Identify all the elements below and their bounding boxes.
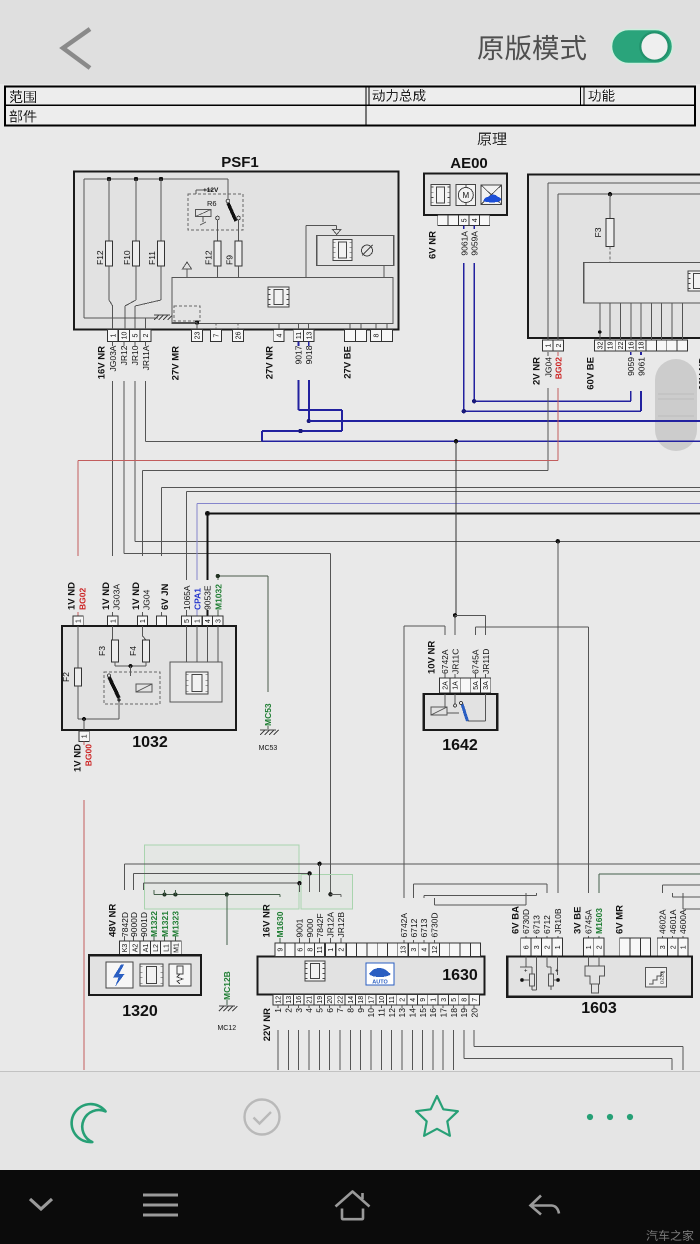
label M1323 xyxy=(171,911,181,937)
wire BSI module pin stubs xyxy=(600,303,682,340)
wire JR11A xyxy=(141,342,262,442)
svg-text:7: 7 xyxy=(335,1008,345,1013)
svg-text:1V ND: 1V ND xyxy=(73,744,84,772)
svg-text:9061A: 9061A xyxy=(459,231,469,256)
wire 9018 (blue) xyxy=(304,342,700,424)
fuse F12 (relay branch) xyxy=(214,220,221,330)
svg-text:6: 6 xyxy=(524,945,531,949)
block PSF1 outline xyxy=(74,172,399,330)
junction PSF1 pin23 xyxy=(172,320,199,329)
svg-text:JG03A: JG03A xyxy=(108,345,118,371)
svg-text:32: 32 xyxy=(597,342,604,350)
svg-text:9061: 9061 xyxy=(637,357,647,376)
svg-text:1: 1 xyxy=(194,619,201,623)
svg-text:1603: 1603 xyxy=(581,1000,617,1017)
wire 6V JN net xyxy=(162,488,700,617)
label 1V ND (BG02) xyxy=(67,582,78,610)
svg-text:1: 1 xyxy=(555,945,562,949)
svg-text:M1630: M1630 xyxy=(275,911,285,937)
wire 1630 pin20 xyxy=(474,1005,683,1070)
wire 1032 F4 feed xyxy=(143,626,147,640)
svg-text:CPA1: CPA1 xyxy=(192,588,202,610)
svg-text:16V NR: 16V NR xyxy=(262,904,273,937)
svg-text:5A: 5A xyxy=(473,681,480,690)
svg-text:1V ND: 1V ND xyxy=(67,582,78,610)
svg-text:5: 5 xyxy=(184,619,191,623)
wire 9000 net xyxy=(134,871,312,943)
svg-text:M1603: M1603 xyxy=(594,908,604,934)
battery symbols 1603 xyxy=(520,957,560,991)
label M1603 xyxy=(594,908,604,934)
label JG03A (1032) xyxy=(112,584,122,610)
1642 connector pins xyxy=(440,678,491,693)
label BG02 xyxy=(554,357,564,379)
svg-text:4600A: 4600A xyxy=(678,909,688,934)
svg-text:A1: A1 xyxy=(143,944,150,953)
label 9059 xyxy=(626,357,636,376)
svg-text:3: 3 xyxy=(441,998,448,1002)
block 1320 outline xyxy=(89,955,201,995)
buzzer icon xyxy=(362,245,373,256)
svg-text:L2: L2 xyxy=(153,944,160,952)
svg-text:6745A: 6745A xyxy=(584,909,594,934)
ground PSF1 internal xyxy=(154,315,173,320)
wire BG02 net (red) xyxy=(78,352,558,616)
svg-text:+: + xyxy=(555,969,559,975)
svg-text:7: 7 xyxy=(214,333,221,337)
label 6712 (1603) xyxy=(542,915,552,934)
label MC53 small xyxy=(259,745,278,752)
svg-text:2: 2 xyxy=(670,945,677,949)
svg-text:6730D: 6730D xyxy=(521,909,531,934)
svg-text:6730D: 6730D xyxy=(430,912,440,937)
wire M1630 drop (green) xyxy=(279,895,281,943)
svg-text:2: 2 xyxy=(556,343,563,347)
label 9000D xyxy=(129,912,139,937)
svg-text:5: 5 xyxy=(315,1008,325,1013)
svg-text:R6: R6 xyxy=(207,199,217,208)
wire 7842 net xyxy=(125,862,700,943)
IC U2 (sub-module) xyxy=(333,240,352,261)
svg-text:1: 1 xyxy=(545,343,552,347)
svg-text:1630: 1630 xyxy=(442,967,478,984)
label M1032 (1032) xyxy=(213,584,223,610)
highlight box 1 xyxy=(145,845,300,909)
BSI bottom connector pins xyxy=(543,340,688,351)
label 6713 (1603) xyxy=(532,915,542,934)
label CPA1 (1032) xyxy=(192,588,202,610)
junction BSI pin32 xyxy=(598,330,602,334)
label 1V ND (BG00) xyxy=(73,744,84,772)
label MC12B xyxy=(222,971,232,1000)
wire 1032 IC feeds xyxy=(187,626,218,662)
label 6V JN xyxy=(160,583,171,610)
node triangle PSF1 xyxy=(183,262,192,278)
label F9 xyxy=(225,255,235,265)
svg-text:6712: 6712 xyxy=(542,915,552,934)
svg-text:2: 2 xyxy=(143,333,150,337)
svg-text:9059: 9059 xyxy=(626,357,636,376)
wire 1032 BG02 internal xyxy=(77,626,79,668)
svg-text:1: 1 xyxy=(110,333,117,337)
svg-text:1320: 1320 xyxy=(122,1003,158,1020)
1630 top connector pins xyxy=(275,943,481,957)
svg-text:7: 7 xyxy=(472,998,479,1002)
wire 9001 net xyxy=(144,881,302,943)
block BSI outline xyxy=(528,174,700,338)
svg-text:5: 5 xyxy=(461,218,468,222)
wire JR10B drop xyxy=(557,541,559,938)
wire PSF1 internal +bus xyxy=(84,177,228,318)
svg-text:2: 2 xyxy=(284,1008,294,1013)
wire 1065A net xyxy=(187,492,700,617)
wire JR11A internal xyxy=(84,318,145,330)
svg-text:7842F: 7842F xyxy=(315,913,325,937)
svg-text:8: 8 xyxy=(346,1008,356,1013)
svg-text:14: 14 xyxy=(348,996,355,1004)
icon check circle xyxy=(245,1100,280,1135)
svg-text:13: 13 xyxy=(397,1008,407,1018)
relay coil 1642 xyxy=(431,694,447,715)
svg-text:8: 8 xyxy=(307,948,314,952)
label 27V NR xyxy=(265,346,276,379)
svg-text:BG00: BG00 xyxy=(84,744,94,766)
svg-text:4: 4 xyxy=(410,998,417,1002)
relay switch 1642 (blue) xyxy=(460,702,468,722)
label F12 (branch) xyxy=(204,250,214,265)
svg-text:F3: F3 xyxy=(593,227,603,237)
label 6742A (1642) xyxy=(440,649,450,674)
svg-text:1: 1 xyxy=(681,945,688,949)
svg-text:1032: 1032 xyxy=(132,734,168,751)
wire 9017 (blue) xyxy=(262,342,342,442)
svg-text:9000: 9000 xyxy=(305,918,315,937)
label 16V NR (1630) xyxy=(262,904,273,937)
wire MC12B drop (green) xyxy=(226,895,228,1006)
wire M1032 net xyxy=(216,574,268,616)
svg-text:1: 1 xyxy=(82,734,89,738)
block 1630 outline xyxy=(258,957,485,995)
svg-text:L1: L1 xyxy=(163,944,170,952)
icon favorite star xyxy=(416,1096,458,1136)
svg-text:27V BE: 27V BE xyxy=(343,346,354,379)
label 6V MR xyxy=(615,905,626,934)
nav bar icons xyxy=(30,1192,559,1220)
fuse F9 xyxy=(235,220,242,330)
label JG04 (1032) xyxy=(142,589,152,610)
icon night-mode moon xyxy=(64,1096,113,1146)
label JR11C xyxy=(450,649,460,674)
svg-text:19: 19 xyxy=(317,996,324,1004)
svg-text:2: 2 xyxy=(544,945,551,949)
wire 4602A xyxy=(662,885,700,938)
svg-text:MC53: MC53 xyxy=(263,703,273,726)
wire 6730D net xyxy=(434,893,526,943)
svg-text:F12: F12 xyxy=(204,250,214,265)
label 1603 xyxy=(581,1000,617,1017)
svg-text:6713: 6713 xyxy=(419,918,429,937)
svg-text:F12: F12 xyxy=(95,250,105,265)
label 7842F xyxy=(315,913,325,937)
svg-text:22: 22 xyxy=(338,996,345,1004)
svg-text:20: 20 xyxy=(327,996,334,1004)
label 27V BE xyxy=(343,346,354,379)
label 22V NR xyxy=(262,1008,273,1041)
relay R6 (+12V) xyxy=(188,179,243,230)
fuse F12 (left) xyxy=(106,179,113,330)
ground MC12 xyxy=(219,1006,238,1011)
label 6713 (1630) xyxy=(419,918,429,937)
relay switch 1032 xyxy=(107,674,120,702)
IC icon 1320 xyxy=(140,964,163,986)
svg-text:M1: M1 xyxy=(174,943,181,953)
wire 6712 net xyxy=(414,884,547,943)
svg-text:2: 2 xyxy=(597,945,604,949)
wire 1032 F3 feed xyxy=(112,626,114,640)
wire JR11D branch xyxy=(455,615,486,678)
fuse F10 xyxy=(125,179,140,330)
svg-text:16: 16 xyxy=(628,342,635,350)
label 6V NR xyxy=(428,231,439,259)
wire JG03A xyxy=(108,342,118,617)
wire MC53 drop xyxy=(267,576,269,729)
car icon AE00 xyxy=(481,185,502,204)
svg-text:F3: F3 xyxy=(97,646,107,656)
label M1321 xyxy=(160,911,170,937)
block 1642 outline xyxy=(424,694,497,730)
wire PSF1 left internal to ground xyxy=(84,317,158,319)
svg-text:F4: F4 xyxy=(128,646,138,656)
svg-text:6745A: 6745A xyxy=(471,649,481,674)
svg-text:2A: 2A xyxy=(442,681,449,690)
label 原理 xyxy=(478,133,507,146)
label 9000 (1630) xyxy=(305,918,315,937)
svg-text:13: 13 xyxy=(307,332,314,340)
label M1630 xyxy=(275,911,285,937)
svg-text:18: 18 xyxy=(639,342,646,350)
label AE00 xyxy=(450,155,488,172)
block 1603 outline xyxy=(507,957,692,997)
svg-text:11: 11 xyxy=(389,996,396,1003)
dashed box PSF1 module xyxy=(174,306,200,321)
wire 9059A (blue) xyxy=(472,226,631,404)
label 4601A xyxy=(668,909,678,934)
label 3V BE xyxy=(573,907,584,934)
svg-text:9053E: 9053E xyxy=(203,585,213,610)
label 1630 xyxy=(442,967,478,984)
svg-text:M1323: M1323 xyxy=(171,911,181,937)
svg-text:BG02: BG02 xyxy=(78,588,88,610)
svg-text:1: 1 xyxy=(140,619,147,623)
wire JR12B branch xyxy=(330,894,341,943)
label 4602A xyxy=(658,909,668,934)
svg-text:1065A: 1065A xyxy=(182,585,192,610)
svg-text:BG02: BG02 xyxy=(554,357,564,379)
svg-text:JR12B: JR12B xyxy=(336,912,346,938)
svg-text:3A: 3A xyxy=(483,681,490,690)
svg-text:9059A: 9059A xyxy=(470,231,480,256)
wire sub-module to module xyxy=(383,265,385,277)
label 2V NR xyxy=(532,357,543,385)
svg-text:10V NR: 10V NR xyxy=(427,641,438,674)
relay 1032 (dashed box) xyxy=(104,672,160,704)
svg-text:17: 17 xyxy=(438,1008,448,1018)
svg-text:4602A: 4602A xyxy=(658,909,668,934)
svg-text:1: 1 xyxy=(273,1008,283,1013)
svg-text:4: 4 xyxy=(304,1008,314,1013)
svg-text:4: 4 xyxy=(277,333,284,337)
svg-text:9: 9 xyxy=(420,998,427,1002)
svg-text:13: 13 xyxy=(401,946,408,954)
label 9001D xyxy=(139,912,149,937)
svg-text:M1322: M1322 xyxy=(149,911,159,937)
svg-text:M1321: M1321 xyxy=(160,911,170,937)
svg-text:3: 3 xyxy=(534,945,541,949)
fuse F11 xyxy=(135,179,164,330)
wire 1642 3A internal xyxy=(468,694,486,721)
wire 6742A drop xyxy=(403,626,405,943)
label 9061A xyxy=(459,231,469,256)
label F10 xyxy=(122,250,132,265)
svg-text:MC53: MC53 xyxy=(259,745,278,752)
ground MC53 xyxy=(260,730,279,735)
svg-text:1: 1 xyxy=(586,945,593,949)
label 60V BE xyxy=(586,357,597,390)
svg-text:9001D: 9001D xyxy=(139,912,149,937)
svg-text:23: 23 xyxy=(195,332,202,340)
svg-text:2: 2 xyxy=(339,948,346,952)
svg-text:12: 12 xyxy=(432,946,439,954)
svg-text:K3: K3 xyxy=(122,944,129,953)
svg-text:5: 5 xyxy=(133,333,140,337)
svg-text:12: 12 xyxy=(276,996,283,1004)
label JG04 xyxy=(543,357,553,378)
IC U3 (BSI) xyxy=(688,271,700,291)
svg-text:9000D: 9000D xyxy=(129,912,139,937)
svg-text:19: 19 xyxy=(459,1008,469,1018)
watermark 汽车之家 xyxy=(646,1230,693,1241)
svg-text:9018: 9018 xyxy=(304,345,314,364)
svg-text:1: 1 xyxy=(328,948,335,952)
wire JR12 xyxy=(119,342,330,554)
1630 bottom connector pins xyxy=(273,995,480,1006)
svg-text:6713: 6713 xyxy=(532,915,542,934)
wire 9053E net (black) xyxy=(205,511,700,616)
wire M1603 net xyxy=(599,874,700,938)
svg-text:6V NR: 6V NR xyxy=(428,231,439,259)
label 1V ND (JG04) xyxy=(131,582,142,610)
svg-text:2V NR: 2V NR xyxy=(532,357,543,385)
svg-text:2: 2 xyxy=(400,998,407,1002)
junction JR10/JR10B xyxy=(556,539,560,543)
svg-text:AUTO: AUTO xyxy=(372,980,388,986)
svg-text:6V BA: 6V BA xyxy=(511,906,522,934)
svg-text:3: 3 xyxy=(660,945,667,949)
injector icon 1320 xyxy=(169,964,191,986)
svg-text:22: 22 xyxy=(618,342,625,350)
junction F3 top xyxy=(608,192,612,196)
wire 9061A (blue) xyxy=(462,226,641,414)
svg-text:27V NR: 27V NR xyxy=(265,346,276,379)
svg-text:1V ND: 1V ND xyxy=(131,582,142,610)
icon more dots xyxy=(587,1114,633,1120)
lightning icon 1320 xyxy=(106,962,133,988)
svg-text:F9: F9 xyxy=(225,255,235,265)
svg-text:F10: F10 xyxy=(122,250,132,265)
svg-text:16: 16 xyxy=(428,1008,438,1018)
svg-text:13: 13 xyxy=(286,996,293,1004)
svg-text:JR12A: JR12A xyxy=(326,912,336,938)
svg-text:9001: 9001 xyxy=(295,918,305,937)
block AE00 outline xyxy=(424,174,507,216)
svg-text:60V BE: 60V BE xyxy=(586,357,597,390)
wire JR12A drop xyxy=(328,554,332,943)
DZ20 icon 1603 xyxy=(646,968,667,988)
label 6712 (1630) xyxy=(409,918,419,937)
svg-text:11: 11 xyxy=(317,946,324,953)
svg-text:22V NR: 22V NR xyxy=(262,1008,273,1041)
svg-text:3: 3 xyxy=(411,948,418,952)
label 6V BA xyxy=(511,906,522,934)
wire 6745A drop xyxy=(588,627,590,938)
fuse F2 (1032) xyxy=(61,668,82,686)
label 6745A (1603) xyxy=(584,909,594,934)
svg-text:1V ND: 1V ND xyxy=(101,582,112,610)
wire M1322/M1321/M1323 net (green) xyxy=(154,890,280,941)
label 10V NR xyxy=(427,641,438,674)
svg-text:JG03A: JG03A xyxy=(112,584,122,610)
svg-text:3: 3 xyxy=(216,619,223,623)
label F11 xyxy=(147,251,157,265)
1630 bottom wires 1-18 xyxy=(273,1005,479,1070)
svg-text:JR12: JR12 xyxy=(119,345,129,365)
label 1032 xyxy=(132,734,168,751)
svg-text:9: 9 xyxy=(356,1008,366,1013)
wire JR11 drop xyxy=(453,439,458,678)
1032 top connector pins xyxy=(73,616,223,626)
fuse F3 xyxy=(606,194,614,262)
svg-text:+12V: +12V xyxy=(203,187,219,194)
wire 6713 net xyxy=(424,893,537,943)
svg-text:JG04: JG04 xyxy=(142,589,152,610)
relay contact 1642 xyxy=(447,694,459,713)
relay coil 1032 xyxy=(136,684,152,692)
label BG00 (red) xyxy=(84,744,94,766)
label M1322 xyxy=(149,911,159,937)
svg-text:3: 3 xyxy=(294,1008,304,1013)
svg-text:16V NR: 16V NR xyxy=(97,346,108,379)
label 4600A xyxy=(678,909,688,934)
label 9001 (1630) xyxy=(295,918,305,937)
label JR10B (1603) xyxy=(553,908,563,934)
block PSF1 inner module xyxy=(172,278,393,324)
svg-text:A2: A2 xyxy=(133,944,140,953)
svg-text:6V MR: 6V MR xyxy=(615,905,626,934)
1603 top connector pins xyxy=(521,938,688,957)
label MC12 small xyxy=(217,1025,236,1032)
svg-text:MC12: MC12 xyxy=(217,1025,236,1032)
svg-text:DZ20: DZ20 xyxy=(660,972,666,984)
label MC53 (green) xyxy=(263,703,273,726)
label JR12B (1630) xyxy=(336,912,346,938)
1032 bottom pin xyxy=(79,731,89,742)
ui scroll pill xyxy=(655,359,697,451)
svg-text:1642: 1642 xyxy=(442,737,478,754)
svg-text:27V MR: 27V MR xyxy=(171,346,182,380)
svg-text:MC12B: MC12B xyxy=(222,971,232,1000)
toggle switch xyxy=(0,0,700,84)
svg-text:14: 14 xyxy=(408,1008,418,1018)
